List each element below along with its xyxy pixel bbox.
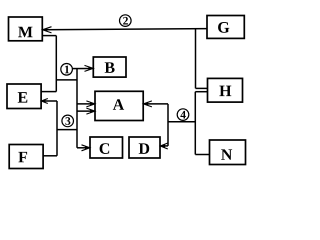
arrowhead into E xyxy=(41,99,48,104)
arrowhead into A lower-left xyxy=(86,108,95,114)
label G xyxy=(218,22,229,33)
wire mid vertical 4 xyxy=(167,104,169,146)
label E xyxy=(18,92,28,102)
box A xyxy=(95,91,143,120)
wire riser1 M down to E xyxy=(55,36,57,92)
arrowhead into M xyxy=(43,27,52,33)
wire riser2 E down to F line xyxy=(56,101,58,156)
arrowhead into A right xyxy=(143,101,152,107)
box D xyxy=(129,137,160,158)
box N xyxy=(210,140,246,165)
arrowhead into A upper-left xyxy=(86,101,95,107)
label M xyxy=(18,27,32,37)
wire arm into A lower xyxy=(77,110,94,112)
node 1 circled xyxy=(61,64,73,76)
wire arrow into D xyxy=(162,145,169,147)
label D xyxy=(139,143,149,154)
label H xyxy=(219,86,231,96)
wire cross link 4 xyxy=(168,121,195,123)
arrowhead into B xyxy=(85,65,94,71)
wire H stub upper xyxy=(196,87,208,89)
label A xyxy=(113,99,124,110)
wire right bus top G to H xyxy=(195,29,197,89)
box H xyxy=(208,78,243,102)
wire arrow into E xyxy=(43,100,57,102)
box C xyxy=(90,137,123,158)
arrowhead into C xyxy=(82,145,90,151)
wire arrow into A right xyxy=(145,103,168,105)
label F xyxy=(18,152,27,162)
wire arm into A upper xyxy=(77,103,94,105)
box B xyxy=(93,57,126,77)
arrowhead into D xyxy=(160,143,168,149)
wire F to riser2 xyxy=(43,155,57,157)
wire H stub lower xyxy=(195,91,207,93)
wire crosslink riser1 to bus xyxy=(56,79,77,81)
wire right bus bottom H to N xyxy=(194,92,196,155)
wire M stub right xyxy=(42,35,56,37)
wire arm into C xyxy=(77,147,89,149)
label N xyxy=(221,149,232,159)
label C xyxy=(100,143,110,154)
wire arrow line to B (node 1) xyxy=(62,68,92,70)
label B xyxy=(105,62,115,73)
node 2 circled xyxy=(120,15,132,27)
node 3 circled xyxy=(62,115,74,127)
box F xyxy=(9,145,43,169)
wire E top link xyxy=(41,91,56,93)
wire center bus vertical xyxy=(76,69,78,148)
node 4 circled xyxy=(177,109,189,121)
wire N stub xyxy=(195,154,209,156)
box M xyxy=(9,17,43,41)
wire G to M (line 2) xyxy=(44,29,208,30)
wire branch riser2 to bus (node 3) xyxy=(57,129,77,131)
box E xyxy=(7,84,41,109)
box G xyxy=(207,16,244,39)
